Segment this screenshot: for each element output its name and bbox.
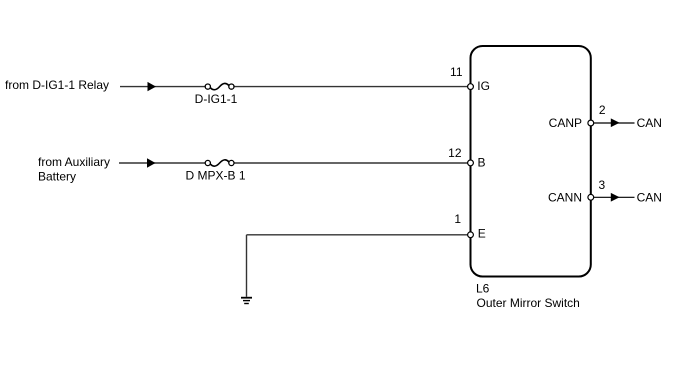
- svg-text:3: 3: [599, 178, 606, 192]
- svg-text:CAN: CAN: [637, 116, 662, 130]
- svg-text:CANP: CANP: [549, 116, 582, 130]
- svg-text:L6: L6: [476, 282, 490, 296]
- svg-text:12: 12: [448, 146, 462, 160]
- svg-text:D-IG1-1: D-IG1-1: [195, 92, 238, 106]
- svg-text:2: 2: [599, 103, 606, 117]
- svg-text:from D-IG1-1 Relay: from D-IG1-1 Relay: [5, 78, 109, 92]
- svg-text:E: E: [478, 227, 486, 241]
- svg-text:Outer Mirror Switch: Outer Mirror Switch: [477, 296, 580, 310]
- svg-text:from Auxiliary: from Auxiliary: [38, 155, 110, 169]
- svg-text:D MPX-B 1: D MPX-B 1: [185, 169, 245, 183]
- svg-text:IG: IG: [477, 79, 490, 93]
- svg-text:11: 11: [450, 65, 463, 79]
- svg-text:1: 1: [454, 212, 461, 226]
- svg-text:CAN: CAN: [637, 191, 662, 205]
- svg-text:Battery: Battery: [38, 170, 76, 184]
- svg-text:B: B: [478, 156, 486, 170]
- svg-text:CANN: CANN: [548, 191, 582, 205]
